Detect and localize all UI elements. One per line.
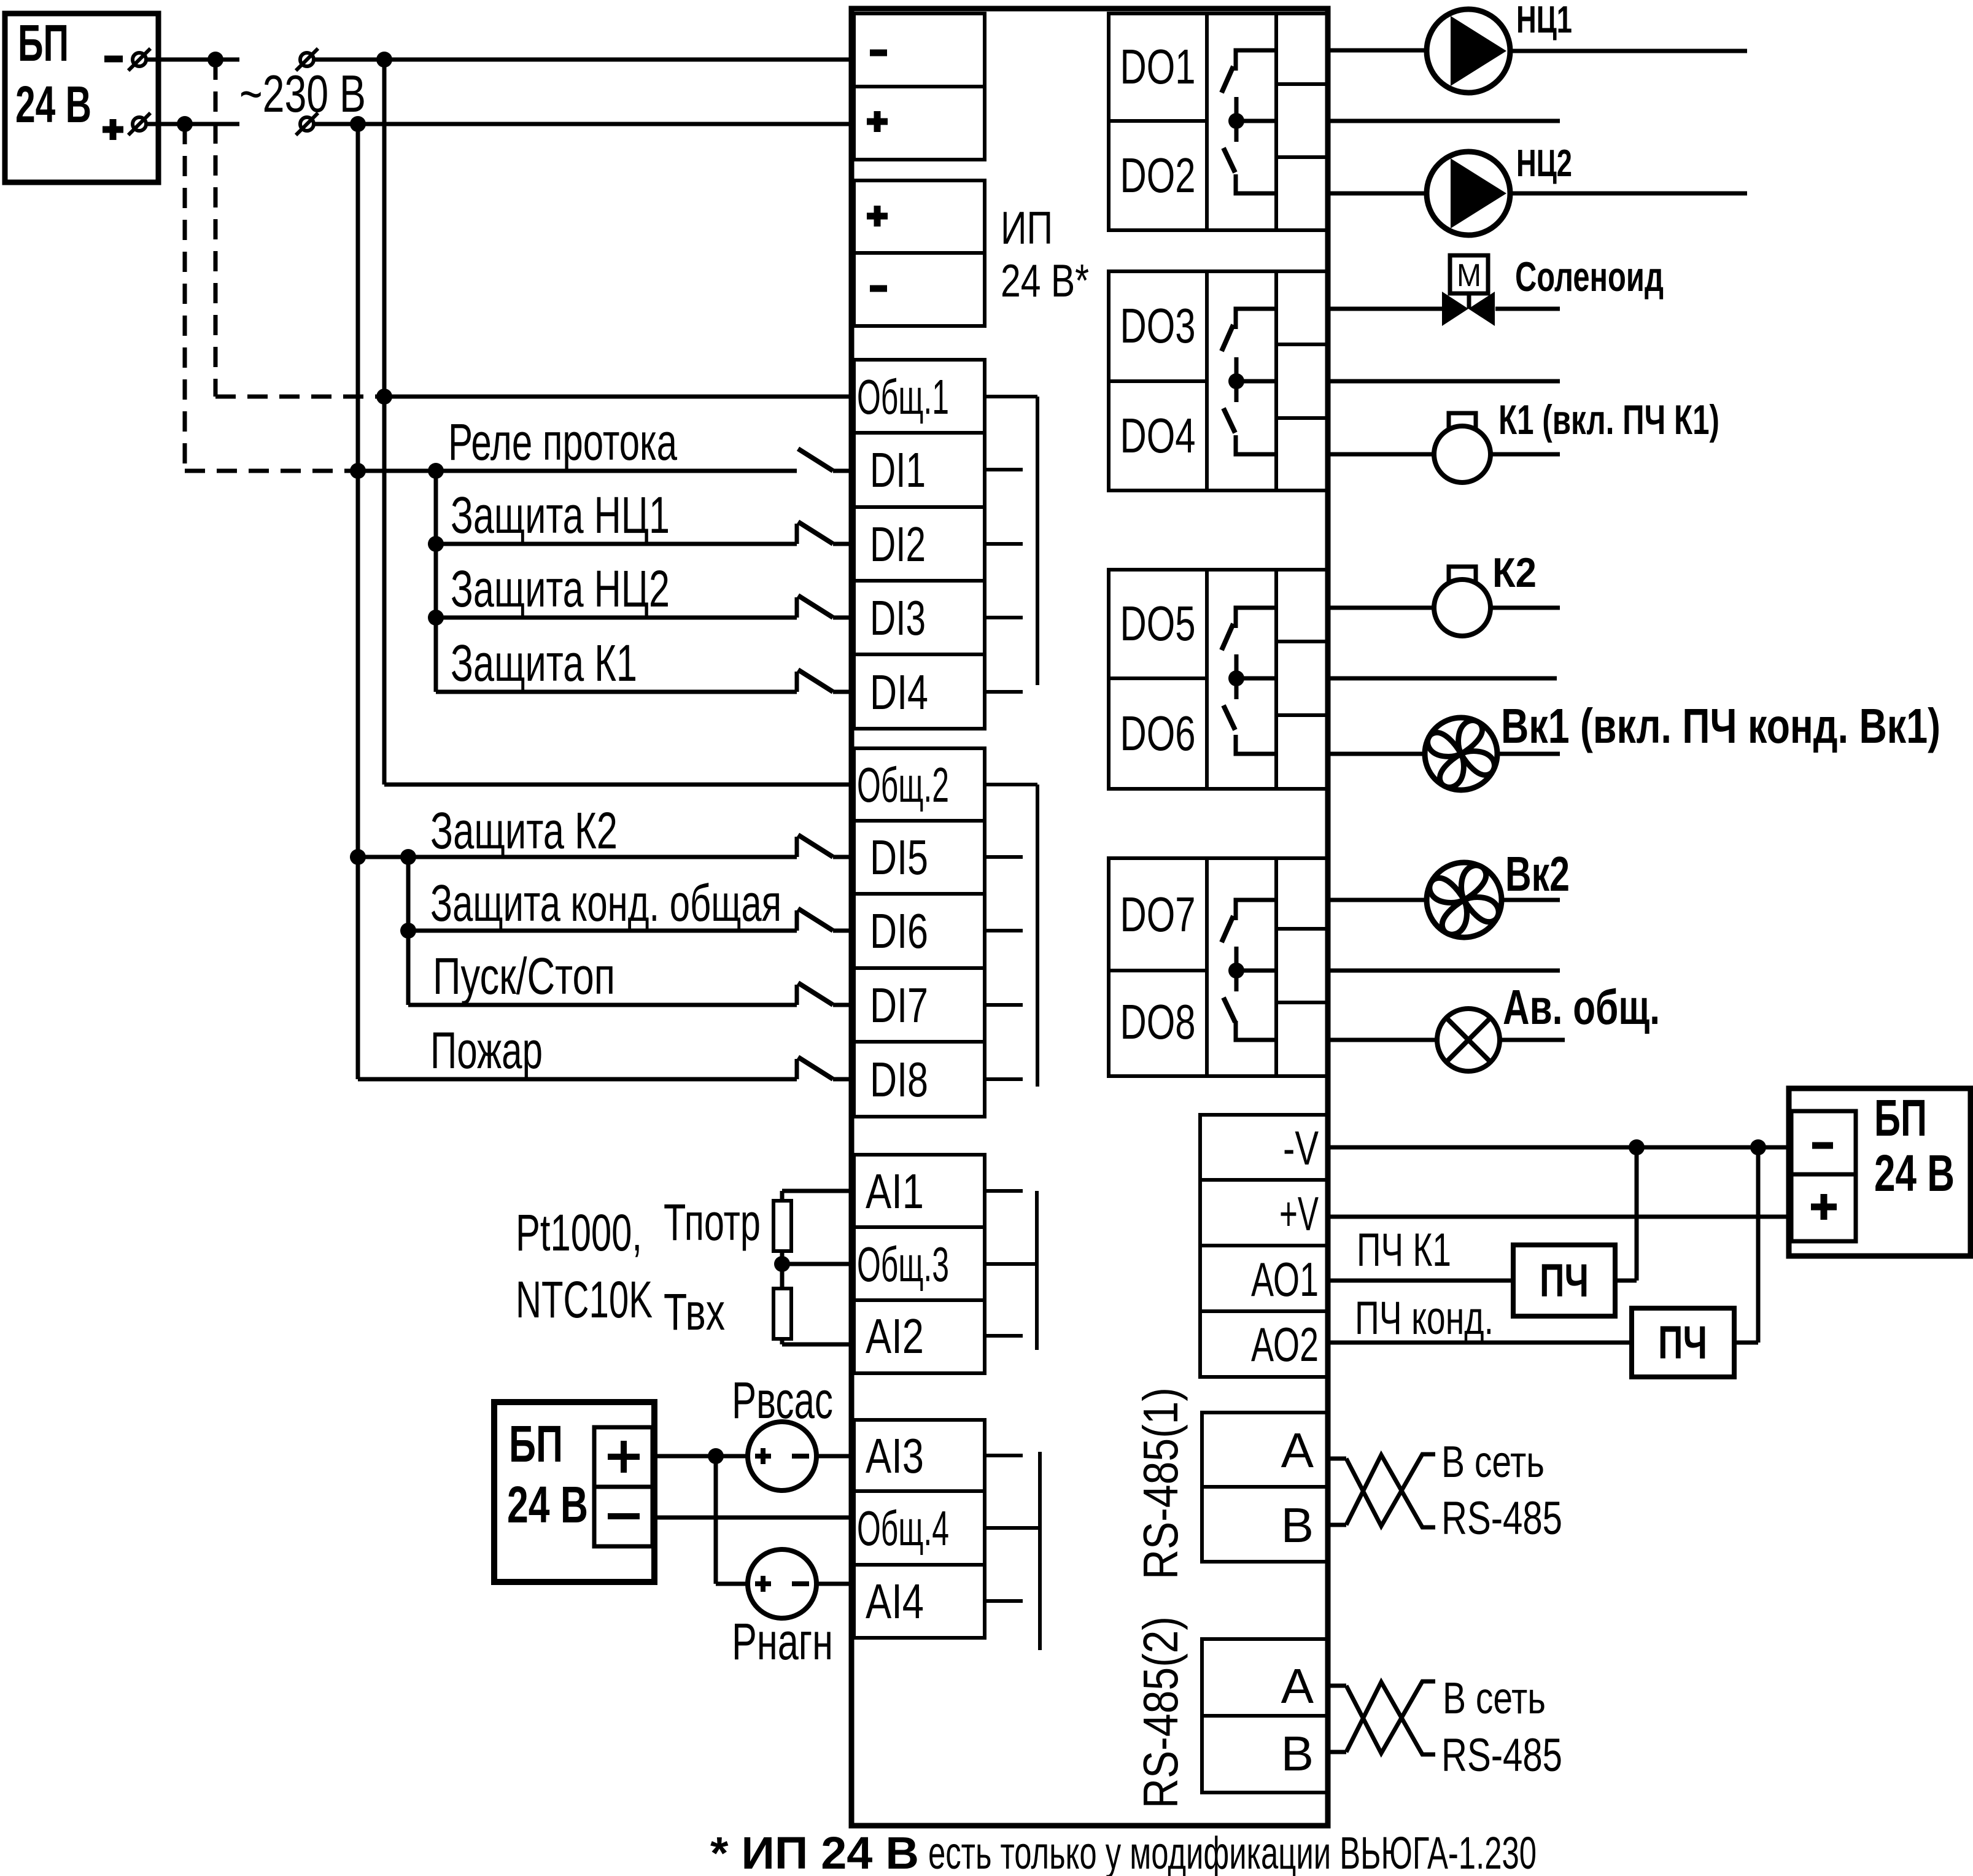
svg-text:А: А — [1281, 1659, 1314, 1713]
svg-text:AI4: AI4 — [866, 1574, 924, 1629]
svg-text:БП: БП — [18, 14, 69, 72]
svg-text:Ав. общ.: Ав. общ. — [1503, 980, 1660, 1034]
svg-text:DO2: DO2 — [1120, 148, 1196, 203]
svg-text:AI2: AI2 — [866, 1309, 924, 1363]
svg-text:Общ.3: Общ.3 — [857, 1237, 949, 1292]
svg-text:В сеть: В сеть — [1441, 1438, 1545, 1487]
svg-text:DI2: DI2 — [870, 517, 926, 572]
svg-text:DO1: DO1 — [1120, 39, 1196, 94]
svg-text:ПЧ: ПЧ — [1540, 1255, 1589, 1307]
svg-text:есть только у модификации ВЬЮГ: есть только у модификации ВЬЮГА-1.230 — [928, 1828, 1537, 1876]
svg-text:АО1: АО1 — [1251, 1252, 1319, 1306]
svg-text:Пожар: Пожар — [430, 1021, 543, 1079]
svg-text:БП: БП — [509, 1415, 563, 1473]
svg-text:~230 В: ~230 В — [239, 65, 366, 123]
svg-text:DO5: DO5 — [1120, 596, 1196, 651]
svg-text:Рвсас: Рвсас — [732, 1371, 833, 1429]
svg-text:AI3: AI3 — [866, 1428, 924, 1483]
svg-text:RS-485: RS-485 — [1441, 1492, 1562, 1545]
svg-text:RS-485: RS-485 — [1441, 1729, 1562, 1781]
svg-text:DI1: DI1 — [870, 443, 926, 497]
svg-text:24 В*: 24 В* — [1001, 255, 1089, 306]
svg-text:ПЧ: ПЧ — [1658, 1317, 1707, 1369]
svg-text:-V: -V — [1283, 1121, 1319, 1175]
svg-text:DI7: DI7 — [870, 978, 928, 1033]
svg-text:DO3: DO3 — [1120, 298, 1196, 353]
svg-text:НЦ1: НЦ1 — [1516, 0, 1572, 41]
svg-text:* ИП 24 В: * ИП 24 В — [710, 1828, 919, 1876]
svg-text:В: В — [1281, 1726, 1314, 1781]
svg-text:+V: +V — [1279, 1187, 1319, 1241]
svg-text:В сеть: В сеть — [1443, 1674, 1546, 1723]
svg-text:М: М — [1457, 258, 1481, 293]
svg-text:ПЧ К1: ПЧ К1 — [1357, 1224, 1451, 1276]
svg-text:Твх: Твх — [664, 1283, 725, 1341]
svg-text:Защита НЦ1: Защита НЦ1 — [451, 486, 670, 544]
svg-text:В: В — [1281, 1498, 1314, 1552]
svg-text:Соленоид: Соленоид — [1515, 254, 1664, 300]
svg-text:Общ.2: Общ.2 — [857, 758, 949, 812]
svg-text:DO7: DO7 — [1120, 887, 1196, 942]
svg-text:DO8: DO8 — [1120, 994, 1196, 1049]
svg-text:DI6: DI6 — [870, 904, 928, 958]
svg-text:DO6: DO6 — [1120, 706, 1196, 761]
svg-text:DI4: DI4 — [870, 665, 928, 719]
svg-text:DI3: DI3 — [870, 591, 926, 645]
svg-text:БП: БП — [1874, 1089, 1927, 1147]
svg-text:К1 (вкл. ПЧ К1): К1 (вкл. ПЧ К1) — [1498, 397, 1719, 443]
svg-text:DI5: DI5 — [870, 830, 928, 885]
svg-text:24 В: 24 В — [15, 76, 91, 133]
svg-text:К2: К2 — [1492, 549, 1537, 596]
svg-text:АО2: АО2 — [1251, 1317, 1319, 1371]
svg-text:Общ.4: Общ.4 — [857, 1501, 949, 1556]
svg-text:Защита К2: Защита К2 — [430, 802, 618, 859]
svg-text:RS-485(1): RS-485(1) — [1133, 1387, 1188, 1579]
svg-text:ИП: ИП — [1001, 202, 1053, 254]
svg-text:Pt1000,: Pt1000, — [516, 1204, 642, 1262]
svg-text:ПЧ конд.: ПЧ конд. — [1355, 1292, 1494, 1344]
svg-text:24 В: 24 В — [507, 1476, 588, 1533]
svg-text:NTC10K: NTC10K — [516, 1271, 653, 1328]
svg-text:Общ.1: Общ.1 — [857, 370, 949, 424]
svg-text:Защита К1: Защита К1 — [451, 634, 637, 692]
svg-text:Вк2: Вк2 — [1505, 847, 1570, 901]
svg-text:Рнагн: Рнагн — [732, 1613, 833, 1670]
svg-text:НЦ2: НЦ2 — [1516, 142, 1572, 185]
svg-text:24 В: 24 В — [1874, 1144, 1955, 1202]
svg-text:DO4: DO4 — [1120, 408, 1196, 463]
svg-text:Защита конд. общая: Защита конд. общая — [430, 874, 781, 932]
svg-text:А: А — [1281, 1423, 1314, 1478]
svg-text:Защита НЦ2: Защита НЦ2 — [451, 560, 670, 618]
svg-text:Вк1 (вкл. ПЧ конд. Вк1): Вк1 (вкл. ПЧ конд. Вк1) — [1501, 699, 1940, 753]
svg-text:Реле протока: Реле протока — [448, 413, 677, 471]
svg-text:Пуск/Стоп: Пуск/Стоп — [433, 947, 615, 1005]
svg-text:RS-485(2): RS-485(2) — [1133, 1616, 1188, 1808]
svg-text:AI1: AI1 — [866, 1164, 924, 1219]
svg-text:Тпотр: Тпотр — [664, 1193, 761, 1251]
svg-text:DI8: DI8 — [870, 1052, 928, 1107]
